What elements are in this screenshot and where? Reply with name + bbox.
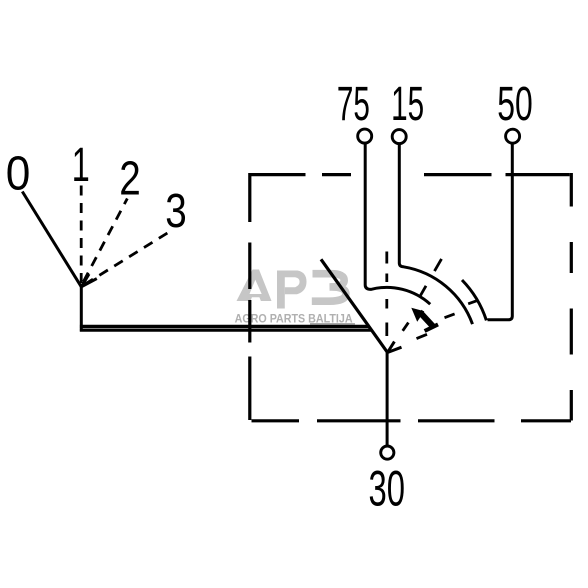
- terminal 30: [381, 446, 394, 459]
- label 3: [165, 185, 187, 238]
- svg-text:15: 15: [391, 78, 424, 131]
- rotor dashed radial vertical: [385, 252, 388, 337]
- watermark caption: [235, 311, 355, 325]
- position 1 dashed: [80, 185, 83, 284]
- wire 15 with contact arc: [399, 141, 472, 324]
- switch lever: [321, 259, 388, 352]
- svg-text:3: 3: [165, 185, 187, 238]
- node junction arrow: [81, 274, 97, 287]
- svg-text:30: 30: [369, 460, 406, 516]
- svg-text:2: 2: [119, 153, 141, 206]
- wire 30: [386, 353, 389, 447]
- terminal 50: [506, 129, 520, 143]
- mechanical link (double line): [80, 326, 372, 330]
- rotation direction arrow: [411, 308, 438, 331]
- wire 50: [488, 141, 513, 320]
- node pivot arrow: [388, 342, 402, 353]
- switch housing (dashed box): [250, 173, 572, 421]
- wire 75 with contact arc: [365, 141, 430, 304]
- svg-text:75: 75: [337, 78, 370, 131]
- terminal 75: [358, 129, 372, 143]
- position 3 dashed: [85, 231, 171, 285]
- label 0: [6, 148, 31, 201]
- terminal 15: [392, 130, 406, 144]
- svg-text:1: 1: [72, 139, 90, 192]
- svg-text:0: 0: [6, 148, 31, 201]
- rotor dashed radial 60deg: [403, 259, 442, 331]
- rotor dashed radial 28deg: [417, 300, 479, 338]
- label 2: [119, 153, 141, 206]
- wire position 0: [22, 192, 81, 287]
- terminal 50 label: [497, 78, 533, 131]
- svg-text:50: 50: [497, 78, 533, 131]
- wire junction drop: [80, 286, 83, 332]
- contact arc 50: [462, 280, 486, 320]
- svg-text:AGRO PARTS BALTIJA: AGRO PARTS BALTIJA: [235, 311, 353, 325]
- terminal 75 label: [337, 78, 370, 131]
- terminal 30 label: [369, 460, 406, 516]
- position 2 dashed: [84, 199, 128, 282]
- watermark APB logo: [237, 270, 346, 309]
- terminal 15 label: [391, 78, 424, 131]
- label 1: [72, 139, 90, 192]
